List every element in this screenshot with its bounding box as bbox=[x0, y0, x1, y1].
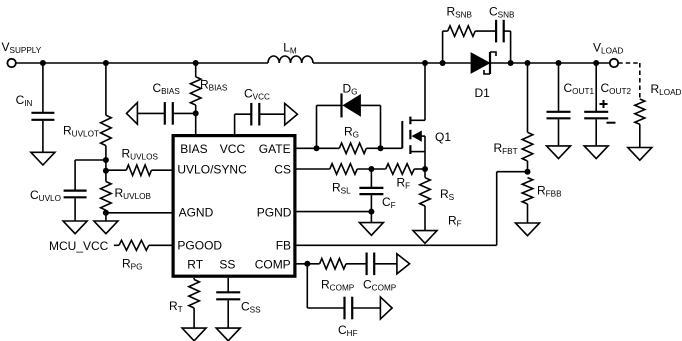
node PGND-jct bbox=[368, 209, 374, 215]
wire DG-riser-right bbox=[380, 105, 382, 148]
node snub-right-tap bbox=[508, 60, 514, 66]
label MCU_VCC bbox=[49, 239, 109, 253]
label CHF bbox=[338, 323, 358, 338]
svg-text:Q1: Q1 bbox=[435, 130, 451, 144]
capacitor CSS bbox=[216, 292, 240, 299]
node CUVLO-tap bbox=[103, 157, 109, 163]
wire FB-pin bbox=[297, 244, 497, 246]
pin GATE bbox=[259, 142, 291, 156]
label CCOMP bbox=[363, 278, 397, 293]
wire CIN-bot bbox=[42, 121, 44, 153]
diode DG bbox=[342, 93, 361, 117]
svg-text:PGND: PGND bbox=[257, 206, 292, 220]
label CVCC bbox=[244, 87, 270, 102]
resistor RBIAS bbox=[190, 77, 201, 105]
node CIN-tap bbox=[40, 60, 46, 66]
label RLOAD bbox=[651, 82, 682, 97]
label D1 bbox=[475, 86, 491, 100]
capacitor CCOMP bbox=[367, 253, 375, 276]
ground RS bbox=[413, 231, 437, 244]
wire snub-mid bbox=[475, 30, 496, 32]
wire Q1-gate-lead bbox=[381, 147, 403, 149]
wire RUVLOS-left bbox=[106, 169, 126, 171]
connector CBIAS-arrow bbox=[127, 103, 138, 125]
svg-text:GATE: GATE bbox=[259, 142, 291, 156]
label COUT2 bbox=[601, 81, 632, 96]
op-amp U1 box bbox=[173, 136, 295, 277]
label RUVLOT bbox=[63, 124, 99, 139]
wire RPG-left bbox=[114, 244, 119, 246]
resistor RSL bbox=[330, 164, 357, 175]
resistor RFBT bbox=[522, 132, 533, 161]
wire RT-bot bbox=[193, 308, 195, 328]
wire CVCC-left bbox=[235, 113, 252, 115]
wire PGND-gnd bbox=[370, 212, 372, 223]
svg-text:UVLO/SYNC: UVLO/SYNC bbox=[177, 163, 247, 177]
resistor RCOMP bbox=[320, 259, 346, 270]
wire snub-left-h bbox=[443, 30, 448, 32]
label CF bbox=[382, 195, 396, 210]
capacitor CHF bbox=[345, 297, 353, 320]
node COMP-jct bbox=[304, 261, 310, 267]
svg-text:COMP: COMP bbox=[255, 257, 291, 271]
label VLOAD bbox=[593, 41, 623, 56]
wire rail-right bbox=[491, 62, 610, 64]
wire RG-left bbox=[317, 147, 340, 149]
label CIN bbox=[16, 93, 33, 108]
wire RF-RS bbox=[414, 168, 425, 170]
wire RUVLOT-bot bbox=[105, 146, 107, 182]
ground RLOAD bbox=[628, 148, 652, 161]
label CUVLO bbox=[30, 188, 61, 203]
svg-text:MCU_VCC: MCU_VCC bbox=[49, 239, 109, 253]
wire CIN-top bbox=[42, 63, 44, 112]
label RUVLOS bbox=[122, 147, 159, 162]
ground CUVLO bbox=[63, 221, 87, 234]
svg-text:VCC: VCC bbox=[220, 142, 246, 156]
label COUT2-minus bbox=[607, 122, 616, 124]
pin BIAS bbox=[180, 142, 207, 156]
ground CSS bbox=[216, 328, 240, 341]
wire CF-bot bbox=[370, 195, 372, 212]
resistor RF bbox=[386, 164, 415, 175]
label RSL bbox=[332, 181, 351, 196]
wire COUT2-bot bbox=[595, 119, 597, 146]
diode D1 bbox=[471, 52, 496, 74]
transistor Q1 bbox=[402, 117, 425, 169]
pin RT bbox=[187, 257, 203, 271]
node GATE-jct bbox=[314, 145, 320, 151]
pin PGOOD bbox=[177, 238, 222, 252]
wire CS-pin bbox=[297, 168, 330, 170]
svg-text:D1: D1 bbox=[475, 86, 491, 100]
node RUVLOT-tap bbox=[103, 60, 109, 66]
wire PGOOD-pin bbox=[149, 244, 172, 246]
node COUT1-tap bbox=[556, 60, 562, 66]
node COUT2-tap bbox=[593, 60, 599, 66]
wire RUVLOT-top bbox=[105, 63, 107, 115]
label CSS bbox=[241, 300, 261, 315]
ground CIN bbox=[31, 152, 55, 165]
node snub-left-tap bbox=[440, 60, 446, 66]
node BIAS-jct bbox=[193, 110, 199, 116]
wire FB-h bbox=[497, 171, 528, 173]
wire DG-riser-left bbox=[316, 105, 318, 148]
wire snub-right bbox=[510, 31, 512, 63]
wire DG-left bbox=[317, 104, 342, 106]
capacitor COUT2 bbox=[584, 112, 608, 119]
label RCOMP bbox=[321, 278, 355, 293]
wire DG-right bbox=[360, 104, 380, 106]
ground RFBB bbox=[516, 223, 540, 236]
node RBIAS-tap bbox=[193, 60, 199, 66]
connector CVCC-arrow bbox=[285, 103, 298, 125]
svg-text:BIAS: BIAS bbox=[180, 142, 207, 156]
node FB-jct bbox=[525, 169, 531, 175]
pin FB bbox=[276, 238, 291, 252]
ground CF bbox=[359, 223, 383, 236]
resistor RG bbox=[339, 143, 366, 154]
resistor RUVLOB bbox=[101, 182, 112, 211]
wire snub-left bbox=[442, 31, 444, 63]
wire CHF-left bbox=[307, 307, 344, 309]
wire RS-bot bbox=[424, 206, 426, 231]
pin SS bbox=[219, 257, 235, 271]
wire SS-top bbox=[227, 278, 229, 292]
label VSUPPLY bbox=[2, 40, 42, 55]
wire RFBT-bot bbox=[527, 161, 529, 172]
terminal VSUPPLY bbox=[7, 59, 15, 67]
capacitor CSNB bbox=[496, 20, 504, 43]
wire COUT1-bot bbox=[558, 119, 560, 146]
connector COMP-arrow bbox=[397, 254, 410, 274]
capacitor CVCC bbox=[251, 103, 259, 126]
wire CCOMP-arrow bbox=[374, 263, 397, 265]
wire RFBT-top bbox=[527, 63, 529, 132]
wire CHF-right bbox=[352, 307, 380, 309]
wire CBIAS-left bbox=[137, 112, 164, 114]
wire Q1-drain bbox=[424, 63, 426, 120]
svg-text:AGND: AGND bbox=[179, 206, 214, 220]
label RSNB bbox=[447, 5, 473, 20]
capacitor CUVLO bbox=[64, 191, 87, 198]
label RUVLOB bbox=[115, 186, 152, 201]
wire GATE-pin bbox=[297, 147, 317, 149]
resistor RUVLOS bbox=[126, 165, 151, 176]
label COUT1 bbox=[564, 81, 595, 96]
wire CHF-riser bbox=[306, 264, 308, 308]
inductor LM bbox=[268, 56, 313, 63]
wire CUVLO-bot bbox=[74, 198, 76, 221]
capacitor CBIAS bbox=[165, 102, 173, 125]
wire RT-top bbox=[193, 278, 195, 280]
pin PGND bbox=[257, 206, 292, 220]
label RF bbox=[397, 176, 411, 191]
node RUVLOS-tap bbox=[103, 168, 109, 174]
node AGND-tap bbox=[103, 210, 109, 216]
wire CUVLO-v bbox=[74, 160, 76, 190]
svg-text:CS: CS bbox=[274, 163, 291, 177]
label RFBT bbox=[494, 141, 518, 156]
wire PGND-pin bbox=[297, 211, 372, 213]
resistor RUVLOT bbox=[101, 115, 112, 145]
resistor RSNB bbox=[448, 26, 476, 37]
resistor RT bbox=[189, 280, 200, 309]
node RG-jct bbox=[378, 145, 384, 151]
resistor RFBB bbox=[522, 178, 533, 204]
label RBIAS bbox=[200, 78, 228, 93]
resistor RLOAD bbox=[635, 99, 645, 124]
wire CUVLO-h bbox=[75, 159, 106, 161]
wire AGND-pin bbox=[106, 212, 172, 214]
ground COUT1 bbox=[547, 146, 571, 159]
wire RG-right bbox=[366, 147, 380, 149]
svg-text:SS: SS bbox=[219, 257, 235, 271]
pin VCC bbox=[220, 142, 246, 156]
wire COUT1-top bbox=[558, 63, 560, 111]
wire VCC-pin bbox=[234, 114, 236, 135]
wire RUVLOB-bot bbox=[105, 210, 107, 221]
node RS-tap bbox=[422, 166, 428, 172]
pin AGND bbox=[179, 206, 214, 220]
svg-text:RT: RT bbox=[187, 257, 203, 271]
label RPG bbox=[122, 257, 143, 272]
capacitor CF bbox=[359, 188, 383, 194]
svg-text:PGOOD: PGOOD bbox=[177, 238, 222, 252]
label RT bbox=[169, 299, 183, 314]
label RS bbox=[440, 187, 455, 202]
wire BIAS-pin bbox=[195, 113, 197, 135]
label COUT2-plus bbox=[600, 100, 608, 108]
node CF-tap bbox=[368, 166, 374, 172]
capacitor CIN bbox=[31, 113, 54, 120]
wire rail-mid bbox=[313, 62, 471, 64]
wire SS-bot bbox=[227, 300, 229, 328]
capacitor COUT1 bbox=[547, 112, 571, 119]
wire RS-top bbox=[424, 169, 426, 178]
label CBIAS bbox=[153, 81, 181, 96]
pin UVLO/SYNC bbox=[177, 163, 247, 177]
ground RUVLOB bbox=[94, 221, 118, 234]
label RF2 bbox=[448, 214, 462, 229]
wire UVLO-pin bbox=[151, 169, 171, 171]
wire RSL-RF bbox=[357, 168, 386, 170]
connector CHF-arrow bbox=[380, 297, 392, 319]
ground COUT2 bbox=[584, 146, 608, 159]
wire CVCC-right bbox=[259, 113, 284, 115]
wire rail-left bbox=[16, 62, 268, 64]
ground RT bbox=[182, 328, 206, 341]
wire RBIAS-bot bbox=[195, 105, 197, 113]
wire RLOAD-bot bbox=[639, 124, 641, 147]
node Q1-drain-tap bbox=[422, 60, 428, 66]
wire FB-riser bbox=[496, 172, 498, 246]
wire snub-right-h bbox=[504, 30, 511, 32]
node RFBT-tap bbox=[525, 60, 531, 66]
wire RBIAS-top bbox=[195, 63, 197, 77]
label CSNB bbox=[489, 5, 515, 20]
label LM bbox=[283, 41, 297, 56]
label RG bbox=[344, 125, 359, 140]
terminal VLOAD bbox=[610, 59, 618, 67]
pin CS bbox=[274, 163, 291, 177]
wire COMP-pin bbox=[297, 263, 320, 265]
wire CBIAS-right bbox=[173, 112, 196, 114]
resistor RPG bbox=[119, 240, 149, 250]
wire COUT2-top bbox=[595, 63, 597, 111]
wire RCOMP-CCOMP bbox=[346, 263, 367, 265]
label RFBB bbox=[537, 184, 562, 199]
wire RLOAD-dash-v bbox=[639, 63, 641, 99]
wire CF-top bbox=[370, 169, 372, 187]
wire VLOAD-dash-h bbox=[618, 62, 640, 64]
wire RFBB-bot bbox=[527, 204, 529, 223]
pin COMP bbox=[255, 257, 291, 271]
svg-text:FB: FB bbox=[276, 238, 291, 252]
resistor RS bbox=[420, 178, 431, 206]
label Q1 bbox=[435, 130, 451, 144]
label DG bbox=[343, 82, 358, 97]
